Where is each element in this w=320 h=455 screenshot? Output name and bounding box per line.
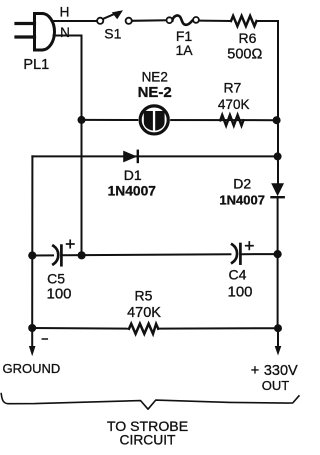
svg-text:H: H: [60, 5, 70, 20]
svg-text:CIRCUIT: CIRCUIT: [120, 432, 177, 447]
svg-text:R7: R7: [223, 79, 241, 95]
svg-text:100: 100: [46, 285, 71, 302]
svg-text:1A: 1A: [175, 42, 193, 58]
svg-text:GROUND: GROUND: [3, 361, 61, 376]
svg-text:C5: C5: [47, 270, 65, 286]
svg-text:D1: D1: [124, 167, 142, 183]
svg-text:1N4007: 1N4007: [219, 192, 265, 207]
svg-text:1N4007: 1N4007: [108, 184, 157, 199]
svg-text:NE2: NE2: [142, 69, 168, 84]
svg-text:NE-2: NE-2: [138, 84, 172, 101]
svg-text:470K: 470K: [127, 305, 161, 321]
svg-text:R6: R6: [239, 30, 257, 46]
svg-text:+: +: [251, 363, 259, 379]
svg-text:OUT: OUT: [262, 378, 290, 393]
svg-text:100: 100: [227, 283, 252, 300]
svg-text:D2: D2: [233, 175, 251, 191]
svg-text:N: N: [60, 25, 70, 40]
svg-text:500Ω: 500Ω: [227, 47, 262, 63]
svg-text:S1: S1: [104, 26, 121, 42]
svg-text:470K: 470K: [218, 97, 250, 112]
svg-text:330V: 330V: [264, 363, 298, 379]
svg-text:TO STROBE: TO STROBE: [107, 418, 188, 434]
svg-text:PL1: PL1: [23, 57, 49, 73]
svg-text:C4: C4: [229, 267, 247, 283]
svg-text:R5: R5: [135, 288, 153, 304]
